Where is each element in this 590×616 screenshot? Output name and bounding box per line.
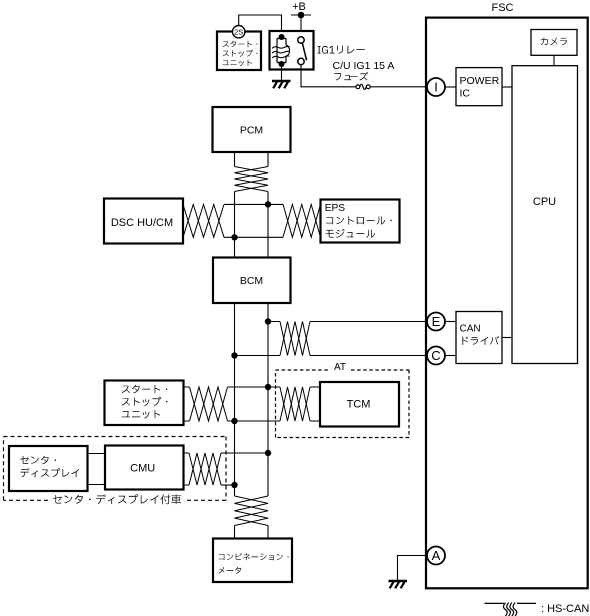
twisted pair CMU to bus bbox=[189, 453, 221, 485]
relay coil bbox=[272, 39, 290, 63]
svg-text:IC: IC bbox=[460, 88, 471, 100]
CPU U1 bbox=[512, 66, 578, 364]
wire coil to ground bbox=[281, 64, 283, 81]
start-stop unit box (lower) スタート・ストップ・ユニット bbox=[105, 381, 184, 426]
wire +B to relay switch bbox=[300, 15, 302, 38]
wire pin A to ground bbox=[398, 556, 428, 582]
PCM module bbox=[213, 107, 291, 152]
junction dot CAN-L CMU row bbox=[231, 482, 237, 488]
junction dot CAN-H CMU row bbox=[265, 450, 271, 456]
combination meter コンビネーション・メータ bbox=[213, 539, 292, 583]
junction dot CAN-H FSC row bbox=[265, 318, 271, 324]
wire DSC-EPS pair bbox=[224, 204, 283, 237]
wire start-stop to TCM pair bbox=[228, 387, 281, 421]
AT option dashed box bbox=[276, 362, 410, 438]
label フューズ bbox=[334, 72, 368, 80]
FSC module box bbox=[426, 18, 588, 589]
twisted pair DSC to bus bbox=[183, 204, 224, 237]
junction dot CAN-H TCM row bbox=[265, 384, 271, 390]
CMU module bbox=[105, 446, 184, 490]
wire CMU to bus CAN-L bbox=[221, 484, 235, 486]
wire CAN bus verticals upper bbox=[235, 192, 269, 258]
junction dot CAN-L TCM row bbox=[231, 418, 237, 424]
junction coil bottom bbox=[279, 61, 285, 67]
svg-text:C: C bbox=[431, 348, 440, 363]
relay switch contacts bbox=[298, 37, 307, 65]
svg-text:A: A bbox=[432, 548, 441, 563]
svg-text:DSC HU/CM: DSC HU/CM bbox=[111, 217, 173, 229]
wire camera to CPU bbox=[553, 55, 555, 65]
twisted pair bus to combination meter bbox=[235, 496, 269, 526]
wire CMU stubs bbox=[184, 453, 190, 485]
wire bus to combination meter bbox=[235, 526, 269, 539]
TCM module bbox=[320, 382, 399, 427]
POWER IC U2 bbox=[456, 68, 502, 106]
ground G2 bbox=[389, 581, 408, 588]
svg-text:EPS: EPS bbox=[325, 203, 346, 214]
wire fuse to pin I bbox=[370, 86, 427, 88]
svg-text:I: I bbox=[434, 80, 438, 95]
svg-text:2S: 2S bbox=[234, 28, 243, 37]
twisted pair TCM to bus bbox=[280, 387, 310, 421]
svg-text:AT: AT bbox=[334, 362, 346, 373]
wire start-stop stubs bbox=[184, 387, 190, 421]
pin E connector circle bbox=[427, 313, 445, 331]
wire center display to CMU bbox=[88, 454, 106, 485]
twisted pair start-stop to bus bbox=[190, 387, 228, 421]
svg-text:CPU: CPU bbox=[533, 196, 556, 208]
svg-text:FSC: FSC bbox=[492, 2, 514, 14]
twisted pair EPS to bus bbox=[283, 204, 321, 237]
legend HS-CAN twisted pair symbol bbox=[485, 603, 537, 616]
junction dot CAN-H DSC row bbox=[265, 201, 271, 207]
fuse F1 bbox=[356, 84, 370, 89]
relay K1 IG1 box bbox=[270, 31, 314, 70]
svg-text:+B: +B bbox=[292, 1, 306, 13]
connector 2S circle bbox=[233, 26, 245, 38]
svg-text:POWER: POWER bbox=[460, 75, 500, 87]
start-stop unit box (top) スタート・ストップ・ユニット bbox=[217, 32, 261, 71]
pin A connector circle bbox=[427, 547, 445, 565]
camera unit カメラ bbox=[531, 30, 577, 56]
wire POWER IC to CPU bbox=[502, 86, 512, 88]
BCM module bbox=[213, 258, 291, 304]
DSC HU/CM module bbox=[104, 199, 183, 244]
wire pin I to POWER IC bbox=[445, 86, 456, 88]
junction dot CAN-L FSC row bbox=[231, 352, 237, 358]
wire bus to pin C bbox=[235, 355, 428, 357]
twisted pair bus to FSC bbox=[280, 322, 310, 356]
svg-text:CMU: CMU bbox=[130, 463, 155, 475]
twisted pair PCM to bus bbox=[235, 167, 269, 192]
EPS control module EPSコントロール・モジュール bbox=[321, 200, 400, 243]
svg-text:C/U IG1 15 A: C/U IG1 15 A bbox=[333, 60, 395, 72]
svg-text:: HS-CAN: : HS-CAN bbox=[541, 603, 589, 615]
node +B bbox=[291, 1, 311, 18]
svg-text:PCM: PCM bbox=[240, 125, 263, 137]
wire pin E to CAN driver bbox=[445, 321, 456, 323]
svg-text:CAN: CAN bbox=[460, 324, 481, 335]
wire 2S to relay coil bbox=[239, 15, 282, 35]
svg-text:TCM: TCM bbox=[347, 399, 371, 411]
center display option dashed box センタ・ディスプレイ付車 bbox=[4, 437, 227, 505]
wire CMU to bus CAN-H bbox=[221, 452, 268, 454]
pin I connector circle bbox=[427, 78, 445, 96]
wire PCM stubs bbox=[235, 152, 269, 167]
svg-text:E: E bbox=[432, 314, 441, 329]
wire pin C to CAN driver bbox=[445, 355, 456, 357]
label IG1リレー bbox=[318, 46, 365, 54]
wire CAN bus verticals lower bbox=[235, 303, 269, 496]
wire TCM stubs bbox=[310, 387, 320, 421]
svg-text:BCM: BCM bbox=[240, 275, 263, 287]
pin C connector circle bbox=[427, 347, 445, 365]
wire bus to pin E bbox=[268, 321, 427, 323]
center display module センタ・ディスプレイ bbox=[9, 446, 88, 491]
ground G1 bbox=[272, 81, 291, 88]
junction coil top bbox=[279, 34, 285, 40]
wire relay switch to fuse bbox=[301, 65, 356, 87]
junction dot CAN-L DSC row bbox=[231, 234, 237, 240]
CAN driver U3 CANドライバ bbox=[456, 312, 502, 364]
wire CAN driver to CPU bbox=[502, 337, 512, 339]
